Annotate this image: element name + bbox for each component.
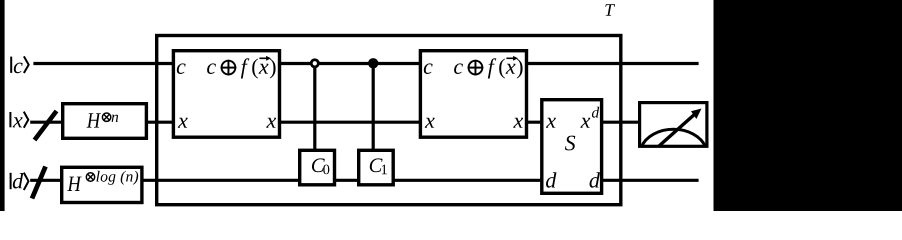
gate H1 (H tensor n) bbox=[63, 104, 147, 139]
label T bbox=[605, 4, 615, 16]
wire d segment 1 (ket to H2) bbox=[30, 179, 62, 182]
wire x segment 4 (U2 to S) bbox=[525, 121, 542, 124]
wire d segment 5 (S to right end) bbox=[602, 179, 699, 182]
gate C1 bbox=[359, 150, 394, 185]
label S bbox=[565, 136, 575, 151]
wire d segment 2 (H2 to C0) bbox=[142, 179, 300, 182]
control node (open) on wire c bbox=[311, 60, 318, 67]
meter gauge arc bbox=[641, 129, 705, 147]
meter needle bbox=[659, 109, 702, 147]
gate U2 (oracle c xor f(x)) bbox=[420, 51, 526, 138]
wire x segment 3 (U1 to U2) bbox=[280, 121, 421, 124]
background black region right bbox=[714, 0, 902, 211]
label c xor f(x vec) of U2 bbox=[454, 56, 522, 79]
pin label d (S bottom-left input) bbox=[546, 172, 556, 188]
wire x^d segment (S to meter) bbox=[602, 121, 640, 124]
pin label x (S top-left input) bbox=[546, 118, 556, 128]
label C0 bbox=[312, 158, 329, 174]
gate U1 (oracle c xor f(x)) bbox=[173, 51, 279, 138]
box T (outer time-step box) bbox=[157, 36, 621, 205]
pin label x (U2 bottom-left input) bbox=[425, 118, 435, 128]
pin label c (U1 top-left input) bbox=[177, 63, 186, 74]
label H tensor n bbox=[87, 113, 119, 128]
label c xor f(x vec) of U1 bbox=[207, 56, 275, 79]
label C1 bbox=[370, 158, 387, 174]
gate S (sort network) bbox=[542, 100, 602, 194]
ket label |x> bbox=[10, 112, 28, 128]
bundle slash on wire x bbox=[35, 111, 57, 140]
wire d segment 4 (C1 to S) bbox=[393, 179, 542, 182]
gate C0 bbox=[300, 150, 335, 185]
pin label x (U1 bottom-left input) bbox=[178, 118, 188, 128]
ket label |d> bbox=[11, 173, 29, 190]
wire c segment 2 (U1 to U2, carries controls) bbox=[280, 62, 421, 65]
control vertical wire to C0 bbox=[313, 68, 316, 151]
background black bar left bbox=[0, 0, 5, 211]
control node (filled) on wire c bbox=[368, 58, 378, 68]
label H tensor log(n) bbox=[67, 171, 138, 191]
pin label d (S bottom-right output) bbox=[590, 172, 600, 188]
control vertical wire to C1 bbox=[372, 64, 375, 151]
pin label x^d (S top-right output) bbox=[580, 107, 599, 128]
ket label |c> bbox=[11, 56, 29, 73]
wire x segment 1 (ket to H1) bbox=[30, 121, 63, 124]
wire c segment 1 (ket to U1) bbox=[33, 62, 173, 65]
wire x segment 2 (H1 to U1) bbox=[146, 121, 173, 124]
gate H2 (H tensor log(n)) bbox=[62, 167, 142, 202]
pin label c (U2 top-left input) bbox=[424, 63, 433, 74]
pin label x (U2 bottom-right output) bbox=[513, 118, 523, 128]
wire d segment 3 (C0 to C1) bbox=[335, 179, 359, 182]
wire c segment 3 (U2 to right end) bbox=[525, 62, 698, 65]
measurement meter box bbox=[640, 103, 707, 147]
bundle slash on wire d bbox=[32, 167, 46, 199]
pin label x (U1 bottom-right output) bbox=[266, 118, 276, 128]
